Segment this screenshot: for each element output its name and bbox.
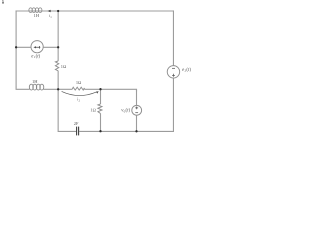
svg-text:(t): (t) <box>126 109 131 114</box>
node junction A (58,11) <box>57 10 59 12</box>
capacitor C1 2F <box>77 127 79 136</box>
wire R3 branch <box>100 89 102 131</box>
inductor L1 1H <box>29 8 42 13</box>
source e1(t) <box>31 41 43 53</box>
wire top with corners <box>16 10 173 13</box>
node junction (58,47.3) <box>57 46 59 48</box>
wire v0 branch <box>136 89 138 131</box>
node junction C (100.5,89.3) <box>99 88 101 90</box>
wire right vertical upper <box>172 10 174 65</box>
wire e1 row <box>16 46 58 48</box>
wire bottom left segment with corner <box>58 89 76 131</box>
corner mark <box>2 0 4 4</box>
svg-text:1: 1 <box>50 15 52 19</box>
source e2(t) <box>167 66 179 78</box>
current arrow i1 <box>48 10 51 13</box>
svg-text:2F: 2F <box>74 121 79 126</box>
svg-text:1H: 1H <box>34 13 40 18</box>
resistor R1 1ohm vertical <box>55 61 58 71</box>
svg-text:1H: 1H <box>32 79 38 84</box>
svg-text:1Ω: 1Ω <box>90 108 96 113</box>
wire left vertical <box>15 10 17 87</box>
source v0(t) <box>132 105 142 115</box>
wire mid vertical <box>57 11 59 90</box>
svg-text:1Ω: 1Ω <box>76 80 82 85</box>
resistor R2 1ohm horizontal <box>72 87 84 90</box>
svg-text:2: 2 <box>79 98 81 102</box>
node junction (15.9,47.3) <box>15 46 17 48</box>
resistor R3 1ohm vertical <box>98 104 102 114</box>
wire B row with left corner <box>16 87 136 92</box>
svg-text:1Ω: 1Ω <box>61 64 67 69</box>
inductor L2 1H <box>29 84 43 90</box>
node junction B (58,89.3) <box>57 88 59 90</box>
node junction (100.5,131.4) <box>99 130 101 132</box>
wire right vertical lower with corner <box>79 78 173 131</box>
node junction (136.5,131.4) <box>135 130 137 132</box>
svg-text:(t): (t) <box>36 54 41 59</box>
svg-text:(t): (t) <box>186 68 191 73</box>
current arrow i2 (curved) <box>62 91 99 95</box>
